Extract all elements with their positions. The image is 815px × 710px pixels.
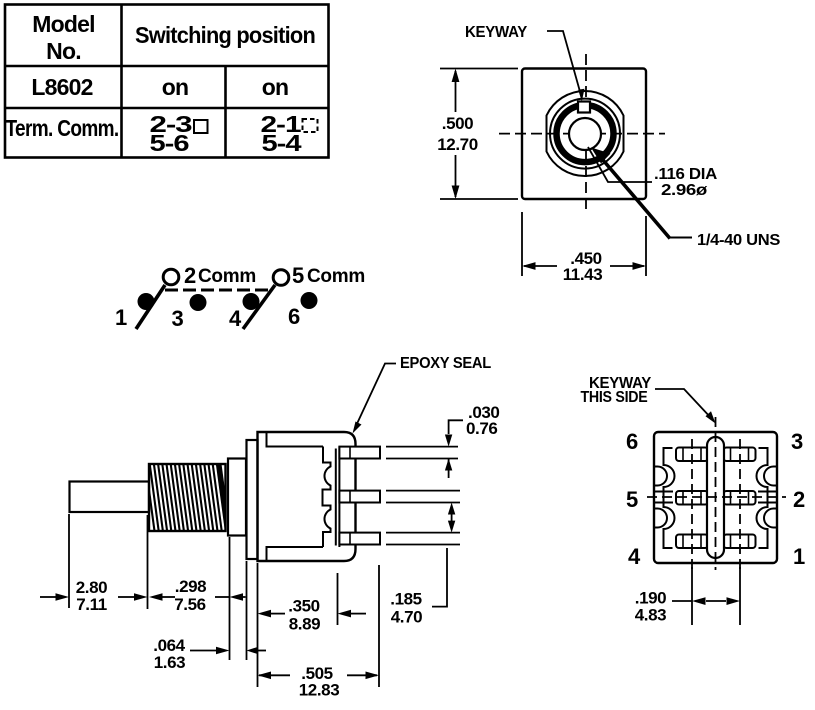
dim .030/0.76 bracket + arrows (449, 420, 463, 434)
body interior bottom-left ear (267, 547, 324, 561)
dim .450/11.43 extension lines (521, 212, 523, 276)
body outline (258, 432, 356, 561)
svg-text:4.70: 4.70 (391, 608, 423, 627)
svg-text:.298: .298 (175, 577, 207, 596)
epoxy seal face lines (335, 449, 337, 546)
svg-text:1: 1 (115, 305, 127, 330)
svg-text:6: 6 (288, 304, 300, 329)
KEYWAY THIS SIDE label (581, 375, 652, 406)
vertical centerline (585, 54, 587, 212)
spec table frame (5, 5, 329, 158)
dim .500/12.70 line + arrows (455, 71, 457, 112)
svg-text:12.83: 12.83 (299, 681, 340, 700)
dim .350/8.89 (258, 610, 272, 618)
left side profile with notches (664, 448, 675, 548)
lower extension lines (68, 514, 70, 608)
svg-text:1: 1 (793, 544, 805, 569)
.116 leader (588, 147, 652, 182)
lever 1 (136, 285, 165, 329)
svg-text:Model: Model (32, 11, 94, 37)
svg-text:.116 DIA: .116 DIA (654, 166, 717, 183)
svg-text:No.: No. (46, 38, 81, 64)
terminal 3 dot (190, 294, 207, 311)
svg-text:on: on (262, 74, 289, 100)
bushing inner thin circle (550, 99, 620, 169)
thread hatching (146, 464, 229, 531)
dim .185/4.70 arrows between rows 2-3 (451, 510, 453, 526)
column dashed lines (691, 439, 693, 572)
svg-text:3: 3 (791, 429, 803, 454)
dim .500/12.70 extension lines (440, 68, 518, 70)
dim .298/7.56 (149, 593, 163, 601)
lever 4 (243, 285, 275, 329)
terminal 1 dot (138, 293, 155, 310)
keyway notch (578, 102, 590, 113)
body outline (654, 432, 777, 563)
terminal 2 comm circle (163, 269, 179, 285)
svg-text:11.43: 11.43 (563, 265, 603, 284)
svg-text:4.83: 4.83 (635, 606, 667, 625)
top view square body (522, 69, 646, 200)
svg-text:1.63: 1.63 (154, 653, 186, 672)
dim .190/4.83 extension lines (691, 567, 693, 625)
dim .500/12.70 text (437, 114, 478, 154)
terminal row 1 (side) (339, 447, 380, 459)
cavity / terminal support profile (323, 447, 331, 548)
keyway leader (547, 31, 582, 97)
dim .116 DIA label (654, 166, 717, 199)
1/4-40 leader with large arrowhead (668, 237, 692, 239)
terminal 5 comm circle (273, 270, 289, 286)
dim .505/12.83 (259, 674, 290, 676)
svg-text:6: 6 (626, 429, 638, 454)
epoxy seal leader (355, 364, 396, 429)
terminal 6 dot (301, 292, 318, 309)
svg-text:on: on (162, 74, 189, 100)
svg-text:Switching position: Switching position (135, 22, 315, 48)
svg-text:THIS SIDE: THIS SIDE (581, 389, 648, 406)
terminal extension lines (right) (386, 446, 458, 448)
terminal row 3 (side) (339, 533, 380, 545)
schematic labels (115, 263, 365, 331)
svg-text:7.56: 7.56 (174, 595, 206, 614)
dim .190/4.83 line + arrows (672, 600, 692, 602)
horizontal centerline (499, 133, 665, 135)
svg-text:.350: .350 (288, 597, 320, 616)
dim .185/4.70 bracket (432, 548, 447, 607)
switch position dashed square (2-1) (303, 119, 318, 132)
thread ring (thick) (557, 105, 614, 162)
svg-text:.500: .500 (442, 114, 474, 133)
svg-text:12.70: 12.70 (437, 135, 478, 154)
svg-text:5: 5 (626, 487, 638, 512)
svg-text:8.89: 8.89 (289, 615, 321, 634)
right side profile with notches (757, 448, 768, 548)
bushing outer circle with flats (547, 91, 624, 176)
svg-text:7.11: 7.11 (76, 595, 107, 614)
svg-text:Term. Comm.: Term. Comm. (6, 115, 119, 141)
svg-text:0.76: 0.76 (466, 419, 498, 438)
svg-text:L8602: L8602 (31, 74, 92, 100)
vertical centerline through slot (715, 417, 717, 570)
mounting flange (247, 440, 258, 559)
dim 2.80/7.11 (40, 596, 56, 598)
comm dashed link (165, 289, 272, 292)
terminal row 2 (side) (339, 491, 380, 503)
svg-text:5: 5 (292, 263, 304, 288)
table header text (6, 11, 316, 156)
svg-text:4: 4 (628, 544, 641, 569)
svg-text:3: 3 (172, 306, 184, 331)
svg-text:Comm: Comm (198, 266, 256, 287)
keyway leader (655, 389, 712, 419)
pin numbers (626, 429, 805, 569)
body interior top-left ear (267, 432, 324, 447)
svg-text:KEYWAY: KEYWAY (465, 24, 528, 41)
svg-text:5-4: 5-4 (262, 130, 302, 156)
threaded bushing outline (149, 464, 226, 531)
actuator circle (569, 118, 601, 150)
dim .450/11.43 text (563, 249, 603, 284)
svg-text:4: 4 (229, 306, 242, 331)
switch position solid square (2-3) (194, 120, 208, 133)
svg-text:Comm: Comm (307, 266, 365, 287)
row2 side stubs (654, 491, 673, 493)
washer (228, 459, 246, 536)
svg-text:5-6: 5-6 (150, 130, 189, 156)
terminal 4 dot (243, 293, 260, 310)
svg-text:EPOXY SEAL: EPOXY SEAL (400, 355, 491, 372)
svg-text:1/4-40 UNS: 1/4-40 UNS (697, 232, 780, 249)
terminal pads: rows x cols (676, 448, 756, 549)
svg-text:2: 2 (184, 263, 196, 288)
keyway slot (707, 437, 724, 558)
dim .450/11.43 line + arrows (524, 265, 557, 267)
svg-text:2.96ø: 2.96ø (661, 182, 708, 199)
dim .064/1.63 (190, 650, 217, 652)
svg-text:.185: .185 (390, 590, 422, 609)
horizontal centerline (647, 496, 786, 498)
shaft (70, 482, 150, 513)
terminal pad inner ticks (683, 448, 749, 548)
svg-text:2: 2 (793, 487, 805, 512)
